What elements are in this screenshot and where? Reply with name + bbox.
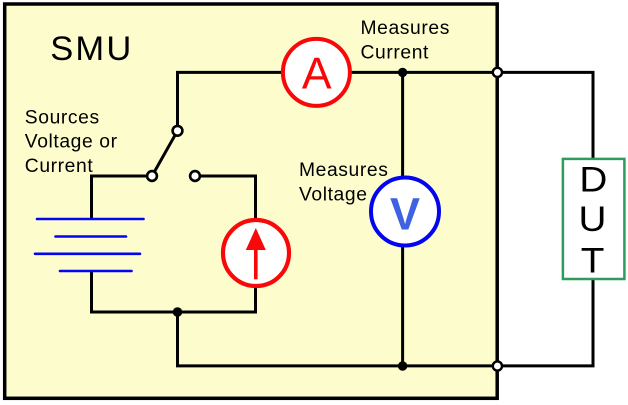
svg-text:D: D: [579, 160, 607, 199]
svg-text:V: V: [390, 188, 420, 239]
svg-text:Current: Current: [25, 156, 94, 177]
svg-text:Voltage: Voltage: [299, 184, 368, 205]
svg-text:U: U: [579, 200, 607, 239]
svg-text:Measures: Measures: [361, 18, 450, 39]
svg-text:Voltage or: Voltage or: [25, 132, 118, 153]
svg-text:A: A: [302, 50, 332, 99]
svg-text:Sources: Sources: [25, 108, 100, 129]
svg-text:T: T: [581, 241, 605, 280]
svg-text:Measures: Measures: [299, 160, 388, 181]
svg-text:SMU: SMU: [50, 30, 133, 68]
svg-text:Current: Current: [361, 42, 430, 63]
